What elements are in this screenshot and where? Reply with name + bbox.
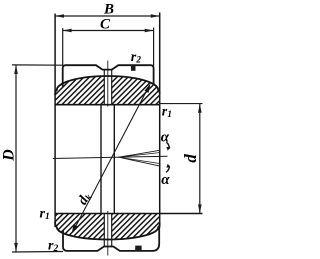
hole center line upper bbox=[107, 61, 109, 107]
bore surface line lower (with extension to dimension d) bbox=[55, 213, 202, 215]
extension line for d (upper) bbox=[160, 103, 203, 105]
misalignment fan line upper inner bbox=[119, 153, 161, 158]
outer ring side face / C extension line right bbox=[153, 28, 155, 67]
hole center line lower bbox=[107, 211, 109, 256]
svg-text:α: α bbox=[161, 172, 170, 188]
hole edge lower left bbox=[103, 214, 105, 247]
inner ring lower cross-section (hatched crescent) bbox=[55, 214, 160, 240]
svg-text:α: α bbox=[161, 129, 170, 145]
alpha leader arrow upper bbox=[166, 142, 169, 149]
lubrication hole channel lower (white gap) bbox=[105, 214, 112, 247]
hole edge upper left bbox=[103, 71, 105, 105]
extension line for D (bottom) bbox=[12, 251, 63, 254]
svg-text:D: D bbox=[0, 149, 17, 162]
inner ring side face / B extension line left bbox=[54, 14, 56, 228]
outer ring bottom band outline with lube groove bbox=[63, 227, 159, 251]
misalignment fan line lower outer bbox=[119, 157, 161, 166]
inner ring side face / B extension line right bbox=[159, 13, 161, 228]
bore surface line upper bbox=[55, 104, 160, 106]
hole edge lower right bbox=[111, 214, 113, 247]
dimension C line with arrowheads bbox=[63, 30, 154, 32]
sphere surface arc lower bbox=[55, 222, 160, 240]
dimension D line with arrowheads bbox=[15, 65, 17, 252]
hole edge upper right bbox=[111, 71, 113, 105]
svg-text:C: C bbox=[100, 17, 111, 33]
misalignment fan line lower inner bbox=[119, 157, 161, 163]
svg-text:B: B bbox=[103, 2, 114, 18]
dimension B line with arrowheads bbox=[55, 15, 160, 17]
extension line for D (top) bbox=[12, 64, 63, 66]
sphere surface arc upper bbox=[55, 76, 160, 95]
misalignment fan line upper outer bbox=[119, 150, 161, 157]
bore groove edge right bbox=[113, 105, 115, 214]
horizontal center line (bearing axis) bbox=[53, 156, 168, 158]
sphere diameter dk diagonal line with arrowheads bbox=[73, 86, 149, 232]
outer ring top band outline with lube groove bbox=[63, 65, 154, 86]
seal notch top (r2 pointer target) bbox=[131, 66, 136, 71]
dimension d line with arrowheads bbox=[199, 104, 201, 214]
bore groove edge left bbox=[100, 105, 102, 214]
seal notch bottom bbox=[135, 246, 141, 251]
lubrication hole channel upper (white gap) bbox=[105, 70, 112, 105]
drawing background bbox=[0, 0, 209, 259]
outer ring side face / C extension line left bbox=[62, 28, 64, 66]
inner ring upper cross-section (hatched crescent) bbox=[55, 76, 160, 105]
svg-text:d: d bbox=[181, 154, 200, 163]
alpha leader arrow lower bbox=[166, 166, 169, 173]
